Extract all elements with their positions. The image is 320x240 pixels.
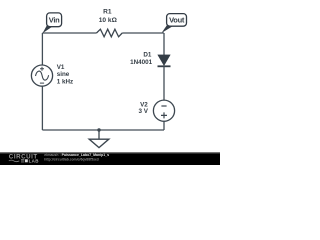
svg-text:10 kΩ: 10 kΩ [99, 17, 118, 24]
CircuitLab logo CL block [21, 160, 24, 162]
wire bottom rail [42, 129, 164, 131]
ground symbol [98, 130, 100, 139]
wire left branch upper (Vin node down to V1) [41, 33, 43, 65]
svg-text:1N4001: 1N4001 [130, 59, 153, 66]
junction ground node [97, 128, 100, 131]
V2 plus sign [161, 112, 167, 118]
svg-text:http://circuitlab.com/c/6qv88f: http://circuitlab.com/c/6qv88f5se3 [44, 157, 99, 161]
diode D1 triangle [158, 55, 170, 66]
svg-text:sine: sine [57, 71, 70, 78]
svg-text:Vin: Vin [49, 16, 60, 25]
CircuitLab logo flourish line [9, 160, 19, 162]
watermark bar [0, 152, 220, 165]
resistor R1 zigzag [97, 29, 123, 37]
wire right branch (Vout node down to diode) [163, 33, 165, 55]
V2 minus sign [161, 105, 166, 107]
voltage source V1 (sine) [31, 65, 52, 86]
svg-text:Vout: Vout [169, 16, 185, 25]
wire V2 to bottom rail [163, 121, 165, 130]
diode D1 cathode bar [158, 65, 171, 67]
svg-text:3 V: 3 V [138, 108, 148, 115]
svg-text:1 kHz: 1 kHz [57, 79, 73, 86]
wire resistor to node Vout [122, 32, 164, 34]
node flag Vin box [47, 13, 62, 27]
voltage source V2 [153, 100, 174, 121]
V1 minus sign [40, 82, 44, 84]
svg-text:V1: V1 [57, 64, 65, 71]
svg-text:D1: D1 [143, 52, 152, 59]
V1 sine glyph [36, 71, 49, 80]
svg-text:LAB: LAB [29, 158, 40, 163]
wire top-left lead (node Vin to resistor R1) [42, 32, 96, 34]
wire diode to V2 [163, 66, 165, 100]
svg-text:R1: R1 [103, 8, 112, 15]
node flag Vout box [167, 14, 187, 27]
node flag Vin pointer [43, 25, 53, 34]
wire left branch lower (V1 to bottom rail) [41, 86, 43, 130]
V1 plus sign [40, 67, 44, 71]
node flag Vout pointer [162, 25, 173, 33]
